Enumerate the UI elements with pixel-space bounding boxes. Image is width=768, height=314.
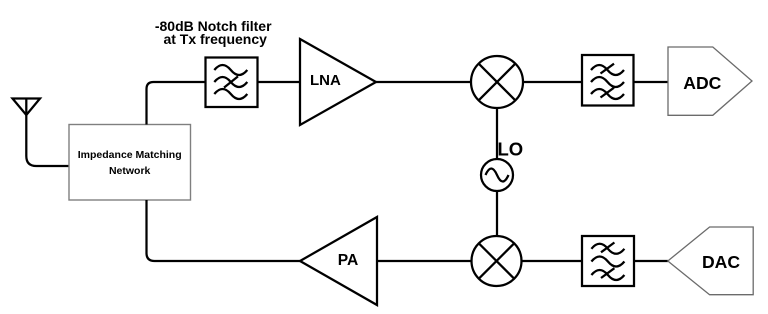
svg-text:LNA: LNA <box>310 72 341 89</box>
converter ADC <box>668 47 752 115</box>
svg-text:Network: Network <box>109 165 151 177</box>
wire: impedance network top to notch filter <box>147 82 206 125</box>
wire: notch filter to LNA <box>258 81 301 83</box>
filter F2 (band-pass) <box>582 55 634 106</box>
filter F3 (band-pass) <box>582 236 634 286</box>
oscillator LO <box>481 159 513 191</box>
wire: band-pass filter F2 to ADC <box>634 81 669 83</box>
svg-text:PA: PA <box>338 252 359 269</box>
wire: LNA to mixer M1 <box>376 81 471 83</box>
amplifier LNA <box>300 39 376 125</box>
wire: mixer M2 to band-pass filter F3 <box>522 260 583 262</box>
wire: LO to mixer M2 <box>496 191 498 236</box>
converter DAC <box>668 227 753 295</box>
wire: mixer M2 to PA <box>377 260 472 262</box>
label: -80dB Notch filter at Tx frequency <box>155 18 272 47</box>
box: Impedance Matching Network <box>69 125 191 201</box>
antenna ANT1 <box>13 99 70 167</box>
wire: mixer M1 to band-pass filter F2 <box>523 81 582 83</box>
wire: band-pass filter F3 to DAC <box>634 260 668 262</box>
wire: impedance network bottom to PA <box>147 200 301 261</box>
wire: mixer M1 to LO <box>496 108 498 159</box>
filter F1 (notch / band-stop) <box>206 58 258 108</box>
mixer M1 <box>471 56 523 108</box>
svg-text:Impedance Matching: Impedance Matching <box>78 149 182 161</box>
amplifier PA <box>300 217 377 305</box>
svg-text:ADC: ADC <box>683 73 721 93</box>
svg-text:at Tx frequency: at Tx frequency <box>163 31 267 47</box>
mixer M2 <box>472 236 522 286</box>
svg-text:LO: LO <box>498 139 524 160</box>
svg-text:DAC: DAC <box>702 252 740 272</box>
